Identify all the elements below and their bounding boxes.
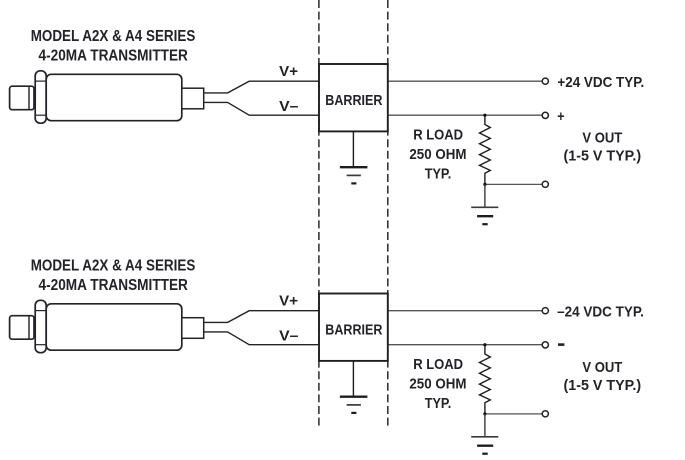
svg-text:V+: V+ [279,63,298,80]
svg-text:TYP.: TYP. [425,166,452,183]
svg-text:–24 VDC TYP.: –24 VDC TYP. [557,303,644,320]
svg-text:250 OHM: 250 OHM [409,146,466,163]
svg-text:MODEL A2X & A4 SERIES: MODEL A2X & A4 SERIES [31,28,196,45]
svg-text:+24 VDC TYP.: +24 VDC TYP. [557,74,644,91]
svg-text:BARRIER: BARRIER [325,92,382,109]
svg-text:+: + [557,108,564,125]
svg-text:V OUT: V OUT [582,129,622,146]
svg-text:V–: V– [279,98,298,115]
svg-text:(1-5 V TYP.): (1-5 V TYP.) [564,147,642,164]
svg-text:4-20MA TRANSMITTER: 4-20MA TRANSMITTER [39,47,189,64]
svg-text:R LOAD: R LOAD [413,126,463,143]
